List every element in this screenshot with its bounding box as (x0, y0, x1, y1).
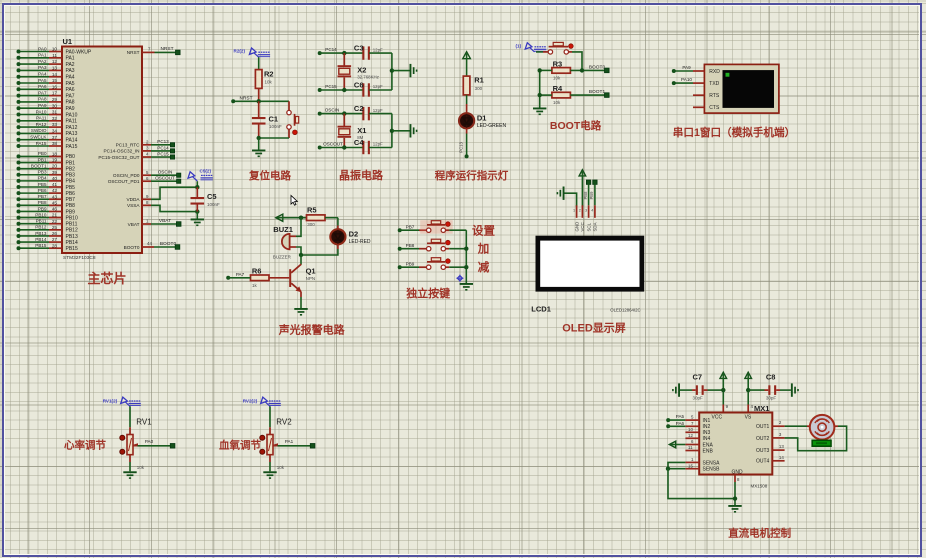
ground reset circuit (252, 138, 265, 157)
svg-text:设置: 设置 (472, 223, 495, 237)
svg-text:C5: C5 (207, 192, 217, 201)
svg-text:PB10: PB10 (66, 215, 78, 221)
ground Q1 emitter (294, 297, 307, 316)
svg-text:PA6: PA6 (676, 421, 685, 426)
wire PB1 to U1 pin 19 (17, 157, 63, 164)
svg-text:14: 14 (52, 72, 58, 77)
svg-text:PA3: PA3 (38, 65, 47, 70)
svg-text:VCC: VCC (580, 222, 585, 231)
svg-text:3: 3 (779, 432, 782, 437)
svg-text:PA10: PA10 (36, 109, 47, 114)
svg-text:VBAT: VBAT (159, 218, 171, 224)
svg-text:PA2: PA2 (38, 59, 47, 64)
svg-text:16: 16 (52, 84, 58, 89)
wire PA4 to U1 pin 14 (17, 72, 63, 79)
ground BOOT circuit (533, 108, 546, 116)
svg-text:3: 3 (146, 146, 149, 151)
svg-text:PB13: PB13 (66, 234, 78, 240)
wire SWDIO to U1 pin 34 (17, 128, 63, 135)
svg-text:43: 43 (52, 194, 58, 199)
svg-text:100nF: 100nF (207, 202, 220, 207)
svg-text:PA7: PA7 (38, 90, 47, 95)
svg-text:8: 8 (146, 200, 149, 205)
ground RV2 (263, 471, 276, 479)
svg-text:X2: X2 (357, 66, 366, 75)
svg-text:PA11: PA11 (36, 116, 47, 121)
svg-text:9: 9 (146, 194, 149, 199)
svg-text:PB7: PB7 (38, 194, 47, 199)
svg-text:PA4: PA4 (38, 72, 47, 77)
svg-text:MX1: MX1 (754, 404, 769, 413)
wire PA10 to TXD (672, 77, 705, 85)
LCD1 OLED12864I2C screen (531, 236, 644, 314)
svg-text:LED-RED: LED-RED (349, 239, 371, 245)
svg-text:100nF: 100nF (269, 124, 282, 129)
wire PA9 to U1 pin 30 (17, 103, 63, 110)
svg-text:C5(2): C5(2) (200, 169, 212, 174)
svg-text:PA6: PA6 (38, 84, 47, 89)
svg-text:心率调节: 心率调节 (64, 439, 106, 452)
svg-text:PB11: PB11 (66, 222, 78, 228)
svg-text:NRST: NRST (239, 95, 252, 101)
svg-text:PA0: PA0 (145, 439, 154, 444)
svg-text:4: 4 (146, 152, 149, 157)
wire PA1 from RV2 wiper (278, 439, 315, 448)
svg-text:IN1: IN1 (703, 418, 711, 424)
wire PA5 to U1 pin 15 (17, 78, 63, 85)
svg-text:R5: R5 (307, 206, 317, 215)
wire BOOT0 net from U1 pin 44 (142, 241, 180, 249)
pin stub OUT3 pin 13 (772, 444, 784, 450)
wire PB15 to U1 pin 28 (17, 243, 63, 250)
ground below C5 (191, 212, 204, 227)
junction C8/VS (746, 388, 750, 392)
svg-text:PB0: PB0 (66, 154, 76, 160)
capacitor C4 12pF (354, 138, 392, 154)
svg-text:CTS: CTS (709, 105, 720, 111)
svg-text:BOOT0: BOOT0 (160, 241, 177, 247)
svg-text:RV1(2): RV1(2) (103, 399, 118, 404)
power arrow ENA pin 6 (669, 439, 699, 448)
svg-text:OSCOUT: OSCOUT (155, 176, 175, 181)
ground crystal X2 (392, 64, 418, 77)
svg-text:17: 17 (52, 91, 58, 96)
svg-text:NRST: NRST (160, 46, 173, 52)
junction GND/SENS (733, 496, 737, 500)
svg-text:C8: C8 (766, 373, 776, 382)
svg-text:30pF: 30pF (766, 395, 777, 400)
wire PB4 to U1 pin 40 (17, 176, 63, 183)
svg-text:10k: 10k (265, 80, 273, 85)
resistor R1 300 (463, 76, 483, 114)
push button PB9 (398, 258, 467, 270)
svg-text:12pF: 12pF (373, 47, 383, 52)
text label 直流电机控制 (728, 527, 791, 540)
svg-text:PA15: PA15 (66, 144, 78, 150)
svg-text:12pF: 12pF (373, 108, 383, 113)
svg-text:程序运行指示灯: 程序运行指示灯 (435, 169, 509, 182)
probe (1) power flag BOOT (516, 43, 547, 52)
svg-text:PA6: PA6 (66, 87, 75, 93)
resistor R6 1k (251, 266, 290, 288)
junction C7/VCC (721, 388, 725, 392)
LED D2 LED-RED (301, 218, 371, 255)
text label 独立按键 (405, 286, 451, 300)
svg-text:Q1: Q1 (306, 267, 316, 276)
svg-text:2: 2 (579, 209, 581, 213)
wire PC13 net below D1 (459, 128, 469, 158)
svg-text:PA7: PA7 (236, 272, 245, 277)
svg-text:PA14: PA14 (66, 138, 78, 144)
svg-text:BOOT1: BOOT1 (589, 89, 606, 95)
svg-text:31: 31 (52, 110, 58, 115)
svg-text:PA11: PA11 (66, 119, 78, 125)
svg-text:PB12: PB12 (35, 225, 47, 230)
node SDA terminal (589, 180, 597, 205)
svg-text:10: 10 (52, 47, 58, 52)
svg-text:VCC: VCC (712, 414, 723, 420)
pin stub GND pin 8 (735, 475, 740, 506)
text label 加 (477, 242, 490, 256)
wire PA6 to IN2 pin 7 (666, 421, 699, 428)
svg-text:PA12: PA12 (36, 122, 47, 127)
svg-text:6: 6 (691, 439, 694, 444)
ground RV1 (123, 471, 136, 479)
junction collector node (299, 253, 303, 257)
svg-text:BOOT电路: BOOT电路 (550, 119, 602, 132)
svg-text:PB8: PB8 (583, 191, 588, 200)
wire PB7 to U1 pin 43 (17, 194, 63, 201)
svg-text:PA8: PA8 (66, 100, 75, 106)
svg-text:PB7: PB7 (406, 225, 415, 230)
pin stub RTS (693, 94, 704, 96)
wire PB0 to U1 pin 18 (17, 151, 63, 158)
origin marker blue (456, 275, 463, 282)
svg-text:MX1508: MX1508 (751, 484, 768, 489)
svg-text:R1: R1 (474, 76, 484, 85)
svg-text:OUT2: OUT2 (756, 436, 770, 442)
svg-text:PA7: PA7 (66, 93, 75, 99)
svg-text:LED-GREEN: LED-GREEN (477, 123, 507, 129)
svg-text:PB13: PB13 (35, 231, 47, 236)
svg-text:6: 6 (146, 176, 149, 181)
resistor R4 10k (540, 84, 607, 105)
capacitor C2 12pF (354, 104, 392, 120)
svg-text:10k: 10k (137, 465, 145, 470)
junction rail X1 (390, 129, 394, 133)
wire PB12 to U1 pin 25 (17, 225, 63, 232)
svg-text:晶振电路: 晶振电路 (339, 168, 384, 182)
pin stub CTS (693, 106, 704, 108)
capacitor C6 12pF (354, 81, 392, 97)
junction C5 top (195, 185, 199, 189)
svg-text:7: 7 (691, 421, 694, 426)
pin stub VS pin 4 (748, 404, 753, 412)
wire R3/R4 left rail (538, 68, 542, 107)
svg-text:PC15: PC15 (157, 151, 169, 156)
wire OSCOUT net from U1 pin 6 (142, 176, 181, 184)
svg-text:PB9: PB9 (589, 191, 594, 200)
svg-text:PB2: PB2 (66, 166, 76, 172)
probe RV2(2) power flag (243, 397, 281, 406)
ground buttons (460, 283, 473, 291)
wire PA6 to U1 pin 16 (17, 84, 63, 91)
svg-text:U1: U1 (63, 37, 73, 46)
text label 复位电路 (248, 169, 291, 182)
svg-text:RXD: RXD (709, 69, 720, 75)
ground right of C8 (sideways) (791, 383, 799, 396)
svg-text:PA5: PA5 (38, 78, 47, 83)
text label 主芯片 (87, 271, 126, 286)
wire PC14 to crystal X2/C3 (318, 47, 364, 55)
svg-text:39: 39 (52, 170, 58, 175)
svg-text:OSCIN_PD0: OSCIN_PD0 (113, 173, 140, 178)
power arrow left of R5 (276, 214, 307, 221)
svg-text:5: 5 (691, 415, 694, 420)
svg-text:PB4: PB4 (66, 179, 76, 185)
ground GND of LCD1 (sideways) (557, 187, 577, 207)
svg-text:加: 加 (477, 242, 490, 256)
push button PB7 (398, 220, 467, 234)
text label OLED显示屏 (562, 322, 626, 335)
svg-text:声光报警电路: 声光报警电路 (278, 323, 346, 337)
svg-text:13: 13 (779, 444, 784, 449)
svg-text:300: 300 (307, 222, 315, 227)
svg-text:C1: C1 (269, 115, 279, 124)
junction X2 bottom (342, 88, 346, 92)
svg-text:R2: R2 (264, 70, 274, 79)
svg-text:R6: R6 (252, 266, 262, 275)
wire PA15 to U1 pin 38 (17, 141, 63, 148)
svg-text:1: 1 (691, 457, 694, 462)
junction X2 top (342, 51, 346, 55)
wire SWCLK to U1 pin 37 (17, 135, 63, 142)
ground crystal X1 (392, 124, 418, 137)
capacitor C3 12pF (354, 44, 392, 60)
wire PA2 to U1 pin 12 (17, 59, 63, 66)
svg-text:R2(2): R2(2) (234, 49, 246, 54)
node BOOT1 terminal (589, 89, 609, 97)
svg-text:RTS: RTS (709, 93, 720, 99)
op-amp U1 main chip STM32F103C8 (62, 37, 142, 261)
svg-text:PB9: PB9 (66, 209, 76, 215)
junction BOOT0/button (580, 68, 584, 72)
svg-text:独立按键: 独立按键 (405, 286, 451, 300)
svg-text:PC13_RTC: PC13_RTC (116, 143, 140, 148)
LED D1 LED-GREEN (459, 113, 506, 129)
wire X1 caps right rail (391, 114, 393, 148)
wire PB11 to U1 pin 22 (17, 219, 63, 226)
svg-text:3: 3 (585, 209, 587, 213)
potentiometer RV2 10k (260, 406, 292, 471)
svg-text:38: 38 (52, 141, 58, 146)
svg-text:PB9: PB9 (406, 262, 415, 267)
svg-text:(1): (1) (516, 43, 522, 48)
wire PA7 to U1 pin 17 (17, 90, 63, 97)
svg-text:11: 11 (688, 445, 693, 450)
svg-text:PA4: PA4 (66, 75, 75, 81)
svg-text:4: 4 (591, 209, 593, 213)
svg-text:15: 15 (52, 78, 58, 83)
wire PB8 to U1 pin 45 (17, 200, 63, 207)
svg-text:PA9: PA9 (682, 65, 691, 70)
svg-text:RV1: RV1 (136, 417, 152, 426)
svg-text:OSCOUT: OSCOUT (323, 142, 343, 147)
node NRST label (239, 95, 252, 101)
wire PB10 to U1 pin 21 (17, 212, 63, 219)
wire PA3 to U1 pin 13 (17, 65, 63, 72)
text label 晶振电路 (339, 168, 384, 182)
motor rpm display (green box) (812, 440, 831, 446)
svg-text:OUT1: OUT1 (756, 424, 770, 430)
text label 心率调节 (64, 439, 106, 452)
svg-text:300: 300 (475, 86, 483, 91)
svg-text:10k: 10k (553, 75, 561, 80)
svg-text:PA10: PA10 (681, 77, 692, 82)
svg-text:18: 18 (52, 152, 58, 157)
wire OSCIN to crystal X1/C2 (318, 108, 364, 116)
crystal X1 8M (338, 114, 367, 148)
wire PB13 to U1 pin 26 (17, 231, 63, 238)
svg-text:PB6: PB6 (66, 191, 76, 197)
wire OUT2 pin 3 to motor (loop) (772, 426, 846, 451)
svg-text:SWDIO: SWDIO (31, 128, 47, 133)
wire PA8 to U1 pin 29 (17, 97, 63, 104)
svg-text:GND: GND (732, 470, 744, 476)
wire SENS to ground rail (668, 469, 735, 499)
pin stub VCC pin 9 (723, 404, 728, 412)
wire PA11 to U1 pin 32 (17, 116, 63, 123)
wire PB14 to U1 pin 27 (17, 237, 63, 244)
svg-text:PC15: PC15 (325, 84, 337, 89)
svg-text:D1: D1 (477, 113, 487, 122)
svg-text:PA3: PA3 (66, 68, 75, 74)
svg-text:血氧调节: 血氧调节 (219, 439, 261, 452)
svg-text:PB14: PB14 (66, 240, 78, 246)
svg-text:RV2(2): RV2(2) (243, 399, 258, 404)
svg-text:2: 2 (146, 139, 149, 144)
svg-text:PB3: PB3 (38, 170, 47, 175)
svg-text:PA1: PA1 (66, 56, 75, 62)
svg-text:26: 26 (52, 231, 58, 236)
svg-text:12pF: 12pF (373, 84, 383, 89)
pin stub IN3 pin 10 (685, 427, 699, 432)
svg-text:SCL: SCL (586, 222, 591, 231)
ground left of C7 (sideways) (672, 383, 680, 396)
svg-text:PC14-OSC32_IN: PC14-OSC32_IN (104, 149, 140, 154)
node BOOT0 terminal (589, 64, 609, 72)
svg-text:46: 46 (52, 207, 58, 212)
svg-text:12: 12 (52, 59, 58, 64)
svg-text:PB8: PB8 (406, 243, 415, 248)
text label 程序运行指示灯 (435, 169, 509, 182)
capacitor C8 30pF (748, 373, 791, 401)
capacitor C7 30pF (680, 373, 723, 401)
wire SENSA pin 1 loop (668, 457, 699, 469)
pin stub IN4 pin 12 (685, 433, 699, 438)
svg-text:OSCIN: OSCIN (325, 108, 340, 113)
pin stub OUT4 pin 14 (772, 455, 784, 461)
svg-text:21: 21 (52, 213, 58, 218)
wire PC14 net from U1 pin 3 (142, 145, 175, 153)
wire PA7 to R6 (226, 272, 250, 280)
junction SENSA/SENSB (666, 467, 670, 471)
svg-text:PB11: PB11 (36, 219, 47, 224)
wire NRST net from U1 pin 7 (142, 46, 180, 54)
push button PB8 (398, 239, 467, 251)
buzzer BUZ1 (273, 218, 301, 260)
svg-text:RV2: RV2 (276, 417, 292, 426)
svg-text:PB5: PB5 (38, 182, 47, 187)
svg-text:BUZZER: BUZZER (273, 255, 292, 260)
wire PC15 to crystal X2/C6 (318, 84, 364, 92)
junction rail X2 (390, 68, 394, 72)
wire OSCIN net from U1 pin 5 (142, 170, 181, 178)
probe RV1(2) power flag (103, 397, 141, 406)
svg-text:PB15: PB15 (66, 246, 78, 252)
LCD1 pin stubs GND VCC SCL SDA (573, 205, 598, 231)
resistor R3 10k (540, 59, 607, 80)
potentiometer RV1 10k (120, 406, 152, 471)
svg-text:14: 14 (779, 455, 784, 460)
svg-text:直流电机控制: 直流电机控制 (728, 527, 791, 540)
svg-text:1k: 1k (252, 283, 258, 288)
svg-text:ENB: ENB (703, 448, 714, 454)
svg-text:PB15: PB15 (35, 243, 47, 248)
svg-text:PA0-WKUP: PA0-WKUP (66, 49, 92, 55)
svg-text:TXD: TXD (709, 81, 719, 87)
svg-text:32: 32 (52, 116, 58, 121)
svg-text:BUZ1: BUZ1 (273, 225, 293, 234)
power arrow VCC of LCD1 (579, 170, 586, 207)
mouse cursor (291, 195, 297, 205)
svg-text:PA1: PA1 (38, 53, 47, 58)
svg-text:PB5: PB5 (66, 185, 76, 191)
wire VDDA pin 9 to C5 top (142, 187, 197, 199)
svg-text:PA15: PA15 (36, 141, 47, 146)
svg-text:PB12: PB12 (66, 228, 78, 234)
power arrow VS MX1 (745, 372, 752, 404)
probe R2(2) power flag (234, 48, 271, 57)
resistor R2 10k (255, 57, 273, 101)
svg-text:30pF: 30pF (693, 395, 704, 400)
svg-text:OLED显示屏: OLED显示屏 (562, 322, 626, 335)
svg-text:BOOT1: BOOT1 (31, 163, 47, 168)
svg-text:VS: VS (745, 414, 752, 420)
power arrow above R1 (463, 52, 471, 76)
svg-text:主芯片: 主芯片 (87, 271, 126, 286)
svg-text:5: 5 (146, 170, 149, 175)
svg-text:SENSB: SENSB (703, 467, 721, 473)
svg-text:PB6: PB6 (38, 188, 47, 193)
svg-text:PA2: PA2 (66, 62, 75, 68)
svg-text:PC14: PC14 (157, 145, 169, 150)
svg-text:20: 20 (52, 164, 58, 169)
svg-text:STM32F103C8: STM32F103C8 (63, 255, 96, 261)
svg-text:IN4: IN4 (703, 436, 711, 442)
text label 声光报警电路 (278, 323, 346, 337)
svg-text:12: 12 (688, 433, 693, 438)
svg-text:PA13: PA13 (66, 131, 78, 137)
wire VSSA pin 8 to C5 bottom (142, 200, 197, 212)
svg-text:PA8: PA8 (38, 97, 47, 102)
svg-text:D2: D2 (349, 229, 359, 238)
wire X2 caps right rail (391, 53, 393, 90)
wire PA12 to U1 pin 33 (17, 122, 63, 129)
svg-text:VBAT: VBAT (128, 222, 140, 227)
svg-text:PC13: PC13 (459, 141, 464, 152)
svg-text:减: 减 (478, 260, 490, 274)
